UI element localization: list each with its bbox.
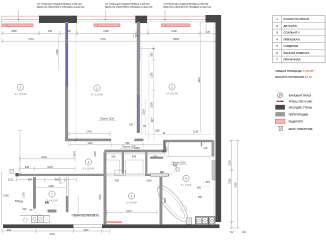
svg-text:2744: 2744 — [28, 38, 34, 41]
radiator R3 — [162, 24, 191, 27]
opening label hall — [120, 146, 138, 149]
partition P1 — [65, 22, 68, 141]
inner dim hall 1 — [69, 131, 110, 136]
bathtub oval inner — [157, 186, 188, 221]
svg-text:500: 500 — [28, 178, 33, 181]
kitchen counter outline — [20, 215, 50, 217]
svg-text:S = 6,9 М²: S = 6,9 М² — [126, 202, 137, 205]
washer square 1 — [196, 218, 201, 224]
dim texts top 2 — [28, 38, 179, 41]
bathtub faucet circle — [159, 186, 162, 189]
kitchen vertical dim — [78, 196, 80, 214]
svg-text:200: 200 — [67, 30, 72, 33]
svg-text:ГАРДЕРОБ: ГАРДЕРОБ — [284, 44, 299, 48]
svg-text:Проем 1100: Проем 1100 — [100, 118, 114, 121]
svg-text:1300: 1300 — [3, 195, 9, 198]
closet inner rect 1 — [106, 160, 119, 174]
toilet — [186, 218, 192, 224]
load-bearing bottom wall right segment — [102, 224, 220, 228]
partition kitchen top wall — [15, 174, 104, 176]
dimension line top 1 — [1, 31, 217, 36]
svg-text:ВЫСОТА ОКОННОГО ПРОЕМА h=220 С: ВЫСОТА ОКОННОГО ПРОЕМА h=220 СМ — [37, 6, 84, 9]
svg-text:2130: 2130 — [229, 178, 232, 184]
svg-text:2764: 2764 — [49, 233, 55, 235]
left dim kitchen horizontal 1 — [20, 157, 76, 162]
svg-text:НЕСУЩИЕ СТЕНЫ: НЕСУЩИЕ СТЕНЫ — [289, 105, 313, 109]
duct strip at right wall — [212, 161, 215, 181]
svg-text:1674: 1674 — [126, 210, 132, 213]
legend table — [273, 16, 326, 63]
svg-text:КУХНЯ-ГОСТИНАЯ: КУХНЯ-ГОСТИНАЯ — [284, 17, 309, 21]
svg-text:585: 585 — [151, 52, 154, 57]
window inner edge ticks — [77, 23, 148, 34]
partition hall-kitchen vertical — [104, 152, 107, 224]
svg-text:857: 857 — [206, 181, 211, 184]
dimension line top 2 — [1, 39, 217, 44]
partition niche at right wall — [212, 140, 215, 157]
svg-text:558: 558 — [125, 142, 130, 145]
svg-text:1110: 1110 — [87, 142, 93, 145]
top exterior wall middle line — [2, 19, 216, 21]
svg-text:ПРАЧЕЧНАЯ: ПРАЧЕЧНАЯ — [284, 58, 301, 62]
svg-text:ПРИХОЖАЯ: ПРИХОЖАЯ — [284, 37, 300, 41]
svg-text:595: 595 — [115, 180, 120, 183]
inner dim hall 2 — [69, 142, 166, 147]
svg-text:3760: 3760 — [235, 182, 238, 188]
svg-text:600: 600 — [22, 208, 27, 211]
bathroom door arc — [164, 164, 177, 177]
svg-text:РАДИАТОР: РАДИАТОР — [289, 120, 303, 124]
svg-text:178: 178 — [206, 31, 211, 34]
radiator R1 — [3, 24, 34, 27]
vent opening symbol — [10, 169, 14, 173]
svg-text:2200: 2200 — [99, 194, 102, 200]
svg-text:ФАНОВАЯ ТРУБА: ФАНОВАЯ ТРУБА — [289, 94, 312, 98]
partition P2 — [137, 22, 140, 133]
svg-text:1685: 1685 — [164, 197, 167, 203]
leader to window 3 — [164, 10, 166, 20]
hall wall stub — [66, 177, 68, 212]
bathtub oval outer — [153, 181, 192, 225]
bottom dimension line — [2, 229, 110, 234]
wall segment right of closets — [150, 157, 163, 159]
left vertical dim line — [18, 130, 22, 174]
load-bearing corner C — [206, 15, 222, 22]
svg-text:S = 14,3 М²: S = 14,3 М² — [166, 93, 178, 96]
svg-text:СПАЛЬНЯ 2: СПАЛЬНЯ 2 — [284, 31, 301, 35]
pipe riser on P1 — [66, 23, 68, 87]
svg-text:938: 938 — [25, 166, 30, 169]
kitchen wall stub low — [48, 210, 57, 213]
rotated dim room1 — [56, 34, 59, 70]
svg-text:1265: 1265 — [94, 151, 97, 157]
room label 5 — [126, 193, 137, 205]
legend partition symbol — [275, 112, 285, 116]
svg-text:ВЫСОТА ПОТОЛКОВ 3,1 М: ВЫСОТА ПОТОЛКОВ 3,1 М — [275, 75, 312, 79]
kitchen sink circle — [23, 218, 27, 222]
opening label H1 — [98, 118, 116, 121]
washer square 3 — [209, 217, 215, 225]
closet door leaf — [114, 170, 125, 175]
svg-text:ВЫСОТА ОКОННОГО ПРОЕМА h=220 С: ВЫСОТА ОКОННОГО ПРОЕМА h=220 СМ — [164, 6, 211, 9]
right wall inner face line — [213, 22, 215, 222]
closet door lines — [104, 174, 145, 176]
room label 1 top-left — [14, 84, 26, 96]
legend pipes symbol — [277, 101, 284, 102]
wall piece left of bathroom door — [160, 171, 164, 174]
window annotation text block 1 — [37, 3, 84, 9]
kitchen inner door arc — [35, 209, 42, 216]
leader to window 2 — [105, 10, 107, 20]
room label 2 top-middle — [91, 85, 103, 97]
faint line room3 — [148, 49, 150, 132]
room5 bottom dim — [107, 210, 157, 214]
partition H1 — [65, 139, 111, 142]
window annotation text block 3 — [164, 3, 211, 9]
svg-text:695: 695 — [173, 164, 178, 167]
left dim kitchen horizontal 2 — [20, 166, 76, 171]
legend radiator symbol — [275, 119, 285, 123]
legend vent symbol — [279, 126, 282, 130]
H1 opening slashes — [110, 139, 136, 141]
svg-text:1753: 1753 — [134, 147, 140, 150]
legend load-bearing symbol — [275, 105, 285, 110]
svg-text:ОБЩАЯ ПЛОЩАДЬ 71,50 М²: ОБЩАЯ ПЛОЩАДЬ 71,50 М² — [275, 69, 313, 73]
svg-text:ПЕРЕГОРОДКИ: ПЕРЕГОРОДКИ — [289, 112, 309, 116]
svg-text:1634: 1634 — [47, 166, 53, 169]
partition kitchen inner vertical — [33, 177, 36, 209]
closet inner rect 2 — [126, 160, 143, 174]
washer square 2 — [202, 218, 207, 224]
svg-text:3838: 3838 — [173, 38, 179, 41]
svg-text:600: 600 — [45, 201, 50, 204]
kitchen stove square 1 — [32, 216, 38, 223]
dishwasher — [43, 216, 49, 223]
corner arrow — [200, 22, 203, 25]
svg-text:953: 953 — [55, 178, 60, 181]
bathroom door leaf striped — [151, 173, 169, 177]
svg-text:1157: 1157 — [83, 229, 89, 232]
right vertical dim line 2 — [235, 140, 240, 228]
svg-text:1258: 1258 — [48, 185, 54, 188]
room label 3 top-right — [166, 84, 178, 96]
vent square bathroom — [176, 168, 179, 171]
svg-text:ВЕНТ. ОТВЕРСТИЕ: ВЕНТ. ОТВЕРСТИЕ — [289, 127, 313, 131]
load-bearing right wall — [216, 15, 222, 222]
top exterior wall outer pink line — [2, 15, 216, 17]
svg-text:ВЫСОТА ОКОННОГО ПРОЕМА h=220 С: ВЫСОТА ОКОННОГО ПРОЕМА h=220 СМ — [105, 6, 152, 9]
svg-text:1743: 1743 — [86, 131, 92, 134]
partition over bathroom door — [145, 174, 169, 176]
junction dot — [164, 133, 165, 134]
top exterior wall inner line — [2, 21, 216, 23]
svg-text:1558: 1558 — [151, 102, 154, 108]
room2 left dim line — [75, 30, 77, 139]
svg-text:565: 565 — [197, 186, 202, 189]
partition closet top — [104, 150, 166, 153]
load-bearing pier A — [39, 16, 77, 23]
svg-text:1750: 1750 — [23, 192, 26, 198]
svg-text:S = 17,9 М²: S = 17,9 М² — [14, 93, 26, 96]
partition bathroom left vertical — [160, 176, 163, 224]
corridor top wall — [166, 140, 212, 142]
rotated dim room3 wall — [198, 24, 201, 133]
svg-text:1138: 1138 — [193, 131, 199, 134]
svg-text:ТРУБЫ ГВС И ХВС: ТРУБЫ ГВС И ХВС — [289, 100, 313, 104]
left exterior wall line — [1, 16, 3, 225]
svg-text:2744: 2744 — [100, 38, 106, 41]
svg-text:1168: 1168 — [154, 130, 160, 133]
svg-text:712: 712 — [229, 231, 234, 234]
kitchen door leaf — [59, 177, 61, 184]
svg-text:181: 181 — [242, 231, 247, 234]
load-bearing pier B — [135, 16, 147, 23]
svg-text:216: 216 — [203, 147, 208, 150]
P2 right dim cluster — [142, 45, 146, 135]
svg-text:4477: 4477 — [151, 117, 154, 123]
closet divider 2 — [145, 152, 147, 174]
svg-text:4441: 4441 — [198, 77, 201, 83]
right vertical dim line 1 — [229, 140, 234, 230]
svg-text:105: 105 — [48, 30, 53, 33]
svg-text:560: 560 — [198, 196, 203, 199]
leader to window 1 — [17, 10, 19, 20]
svg-text:S = 7,3 М²: S = 7,3 М² — [181, 184, 192, 187]
svg-text:1230: 1230 — [229, 160, 232, 166]
partition hall-closet vertical — [163, 140, 165, 151]
washer container — [195, 217, 208, 225]
corridor jamb — [201, 142, 202, 146]
svg-text:S = 13,4 М²: S = 13,4 М² — [91, 94, 103, 97]
svg-text:1145: 1145 — [146, 180, 152, 183]
inner dim closets — [105, 152, 164, 156]
opening label bottom — [73, 215, 100, 218]
leader room3 — [141, 48, 154, 50]
svg-text:605: 605 — [111, 156, 116, 159]
svg-text:1211: 1211 — [8, 178, 14, 181]
warm floor red mark — [106, 221, 122, 223]
svg-text:2196: 2196 — [171, 30, 177, 33]
svg-text:1433: 1433 — [74, 151, 77, 157]
svg-text:938: 938 — [19, 200, 24, 203]
svg-text:140: 140 — [129, 124, 134, 127]
bathroom top dim line — [166, 155, 210, 157]
opening label bathroom — [170, 162, 188, 165]
pipe riser on P2 — [137, 24, 140, 134]
room label 6 bathroom — [181, 175, 192, 187]
closet divider 1 — [122, 152, 124, 174]
radiator R2 — [94, 24, 120, 27]
load-bearing bottom wall left segment — [3, 224, 74, 228]
svg-text:S = 10,4 М²: S = 10,4 М² — [83, 168, 95, 171]
corridor vertical dim — [167, 141, 169, 155]
window annotation text block 2 — [105, 3, 152, 9]
svg-text:2214: 2214 — [142, 109, 145, 115]
svg-text:1100: 1100 — [151, 72, 154, 78]
partition H1 stub at P2 — [135, 139, 144, 142]
svg-text:ДЕТСКАЯ: ДЕТСКАЯ — [284, 24, 297, 28]
svg-text:2180: 2180 — [56, 49, 59, 55]
kitchen stove square 2 — [37, 216, 43, 223]
svg-text:994: 994 — [7, 229, 12, 232]
room label 4 hall — [83, 159, 95, 171]
legend soil pipe symbol — [278, 93, 283, 98]
svg-text:845: 845 — [132, 156, 137, 159]
svg-text:ВАННАЯ КОМНАТА: ВАННАЯ КОМНАТА — [284, 51, 310, 55]
dim texts top 1 — [11, 30, 210, 38]
svg-text:1896: 1896 — [11, 30, 17, 33]
svg-text:СТИРАЛЬНАЯ МАШИНА 34: СТИРАЛЬНАЯ МАШИНА 34 — [71, 214, 99, 217]
bottom opening lines — [74, 225, 103, 228]
rotated dim room3 — [151, 45, 154, 130]
svg-text:3132: 3132 — [41, 156, 47, 159]
kitchen door arc — [60, 177, 67, 184]
svg-text:2190: 2190 — [103, 30, 109, 33]
room2 right dim ticks — [152, 49, 156, 120]
room label 7 kitchen — [47, 191, 58, 203]
